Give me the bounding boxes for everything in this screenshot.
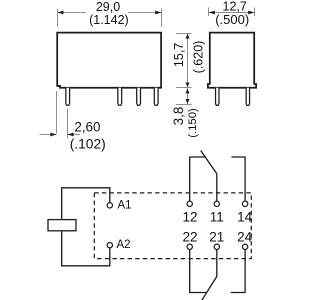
terminal 22: [187, 244, 192, 249]
coil K1: [48, 220, 76, 231]
dimension 3,8 arrow up: [186, 89, 190, 94]
svg-text:A2: A2: [117, 239, 131, 251]
terminal 21: [214, 244, 219, 249]
wire contact 14: [231, 157, 245, 201]
dimension 2,60 line left segment: [40, 134, 57, 136]
svg-text:21: 21: [209, 230, 224, 245]
dimension 29,0 line left segment: [58, 12, 87, 14]
dimension 12,7 extension line right: [254, 8, 256, 17]
dimension 2,60 extension line from body edge: [56, 91, 58, 134]
dimension 2,60 arrow left-pointing: [67, 133, 73, 137]
svg-text:22: 22: [182, 230, 197, 245]
dimension 15,7 arrow up: [186, 34, 190, 39]
terminal 24: [242, 244, 247, 249]
svg-text:3,8: 3,8: [171, 107, 186, 126]
svg-text:24: 24: [237, 230, 253, 245]
terminal 11: [214, 201, 219, 206]
dashed relay enclosure box: [94, 193, 251, 259]
dimension 12,7 arrow left: [209, 11, 215, 15]
dimension 12,7 arrow right: [248, 11, 254, 15]
svg-text:11: 11: [210, 210, 224, 225]
pin 2 front view: [118, 88, 122, 106]
svg-text:15,7: 15,7: [172, 43, 186, 67]
pin row 2 side view: [246, 88, 249, 106]
dimension 3,8 extension line at pin bottom: [176, 104, 192, 106]
dimension 2,60 arrow right-pointing: [50, 133, 56, 137]
dimension 15,7 arrow down: [186, 83, 190, 88]
wire contact 22: [190, 250, 207, 293]
pin 1 (A1) front view: [66, 88, 70, 106]
dimension 29,0 arrow right: [155, 11, 161, 15]
wire contact 12: [190, 157, 206, 201]
movable contact arm 21 bottom: [202, 250, 217, 300]
pin row 1 side view: [216, 88, 219, 106]
dimension 3,8 line: [187, 88, 189, 105]
wire bottom edge front view: [57, 85, 60, 87]
wire A1 to coil: [62, 188, 110, 220]
pin 3 front view: [137, 88, 141, 106]
dimension 3,8 arrow down: [186, 99, 190, 104]
dimension 15,7 extension line top: [176, 33, 192, 35]
svg-text:14: 14: [237, 210, 253, 225]
relay K1 side view body: [208, 33, 256, 88]
svg-text:(1.142): (1.142): [89, 13, 129, 27]
relay K1 front view body: [57, 33, 161, 88]
movable contact arm 11 top: [201, 151, 217, 201]
wire coil to A2: [62, 231, 110, 266]
dimension 15,7 line: [187, 34, 189, 88]
terminal 12: [187, 201, 192, 206]
dimension 29,0 extension line left: [57, 9, 59, 27]
pin 4 front view: [154, 88, 158, 106]
svg-text:(.500): (.500): [215, 12, 249, 27]
wire contact 24: [231, 250, 245, 293]
dimension 15,7 extension line bottom: [176, 87, 192, 89]
dimension 2,60 extension line from pin 1: [67, 109, 69, 139]
dimension 12,7 line: [209, 12, 255, 14]
svg-text:A1: A1: [118, 199, 132, 211]
dimension 29,0 arrow left: [57, 11, 63, 15]
dimension 29,0 extension line right: [161, 9, 163, 27]
svg-text:29,0: 29,0: [96, 0, 120, 14]
svg-text:(.620): (.620): [192, 41, 206, 74]
svg-text:12: 12: [182, 210, 197, 225]
dimension 29,0 line right segment: [128, 12, 162, 14]
terminal 14: [242, 201, 247, 206]
svg-text:(.102): (.102): [70, 136, 106, 151]
svg-text:(.150): (.150): [187, 108, 199, 138]
svg-text:2,60: 2,60: [74, 119, 100, 134]
terminal A1: [107, 203, 112, 208]
terminal A2: [107, 243, 112, 248]
dimension 2,60 line right segment: [68, 134, 81, 136]
dimension 12,7 extension line left: [208, 8, 210, 17]
